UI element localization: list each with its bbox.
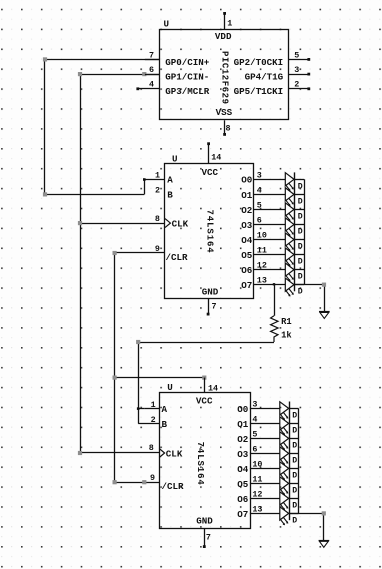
LED D14 <box>280 477 298 496</box>
wire cathode rung 1 column 2 <box>289 408 298 410</box>
svg-text:8: 8 <box>149 443 154 453</box>
wire cathode rung 7 column 2 <box>289 498 298 500</box>
wire cathode rung 2 column 1 <box>294 194 304 196</box>
svg-text:D: D <box>292 411 297 420</box>
svg-text:O4: O4 <box>237 464 249 475</box>
U1 pin 6 stub GP1 <box>145 74 160 76</box>
svg-text:D: D <box>292 471 297 480</box>
junction VCC U3 tap <box>113 376 117 380</box>
LED D15 <box>280 492 298 511</box>
wire U2 output O7 pin 13 <box>254 284 285 286</box>
LED D10 <box>280 417 298 436</box>
svg-text:VCC: VCC <box>196 395 213 406</box>
junction ground 2 corner <box>322 511 326 515</box>
node A/B tie U2 <box>143 178 146 181</box>
junction ground 1 corner <box>322 283 326 287</box>
svg-text:O2: O2 <box>241 205 252 216</box>
junction GP0 corner 1 <box>43 57 47 61</box>
wire GP1 net: PIC pin6 to CLK of U2 and U3 <box>80 74 165 453</box>
svg-text:1: 1 <box>227 19 232 29</box>
wire U3 output O6 pin 12 <box>250 498 280 500</box>
shift register U2 74LS164 body <box>165 164 254 299</box>
ground symbol 2 <box>319 541 330 548</box>
junction GP1 pin connect <box>142 72 146 76</box>
svg-text:7: 7 <box>206 533 211 543</box>
wire LED cathode bus column 1 <box>304 179 306 284</box>
junction GP0 corner 2 <box>43 192 47 196</box>
svg-text:D: D <box>292 441 297 450</box>
junction CLK U3 corner <box>78 451 82 455</box>
svg-text:O7: O7 <box>237 509 248 520</box>
svg-text:7: 7 <box>149 50 154 60</box>
U1 pin 2 stub GP5 <box>289 87 311 90</box>
svg-text:VDD: VDD <box>215 31 232 42</box>
junction CLR U3 corner <box>113 480 117 484</box>
svg-text:B: B <box>167 190 173 201</box>
svg-text:12: 12 <box>257 261 267 271</box>
wire U3 output O1 pin 4 <box>250 423 280 425</box>
wire cathode rung 4 column 1 <box>294 224 304 226</box>
wire cathode rung 4 column 2 <box>289 453 298 455</box>
svg-text:8: 8 <box>226 123 231 133</box>
svg-text:O1: O1 <box>241 190 253 201</box>
LED D7 <box>285 263 303 282</box>
svg-text:10: 10 <box>257 231 267 241</box>
junction VCC U3 pin connect <box>202 376 206 380</box>
svg-text:13: 13 <box>252 504 262 514</box>
svg-text:GP4/T1G: GP4/T1G <box>245 72 284 83</box>
svg-text:5: 5 <box>257 200 262 210</box>
wire R1 bottom to U3 pins A,B <box>138 342 274 424</box>
LED D2 <box>285 188 303 207</box>
svg-text:8: 8 <box>155 214 160 224</box>
U1 pin 1 VDD stub <box>223 12 226 30</box>
LED D16 <box>280 507 298 526</box>
wire cathode rung 8 column 2 <box>289 513 298 515</box>
svg-text:12: 12 <box>252 489 262 499</box>
LED D1 <box>285 173 303 192</box>
svg-text:11: 11 <box>252 474 262 484</box>
wire U3 output O3 pin 6 <box>250 453 280 455</box>
LED D13 <box>280 462 298 481</box>
svg-text:D: D <box>298 288 303 297</box>
wire cathode rung 7 column 1 <box>294 269 304 271</box>
svg-text:3: 3 <box>294 65 299 75</box>
svg-text:D: D <box>298 243 303 252</box>
svg-text:O4: O4 <box>241 235 253 246</box>
svg-text:O6: O6 <box>241 265 252 276</box>
wire U2 output O5 pin 11 <box>254 254 285 256</box>
svg-text:11: 11 <box>257 246 267 256</box>
svg-text:A: A <box>167 175 173 186</box>
wire U3 output O4 pin 10 <box>250 468 280 470</box>
svg-text:D: D <box>292 456 297 465</box>
svg-text:3: 3 <box>252 399 257 409</box>
wire cathode rung 8 column 1 <box>294 284 304 286</box>
wire cathode rung 1 column 1 <box>294 179 304 181</box>
svg-text:5: 5 <box>252 429 257 439</box>
wire GP0 net: PIC pin7 to 74LS164 U2 pins A,B <box>45 59 166 194</box>
LED D8 <box>285 278 303 297</box>
wire U3 output O7 pin 13 <box>250 513 280 515</box>
svg-text:D: D <box>292 501 297 510</box>
LED D12 <box>280 447 298 466</box>
wire U3 output O5 pin 11 <box>250 483 280 485</box>
svg-text:O5: O5 <box>237 479 249 490</box>
U1 pin 8 VSS stub <box>223 120 226 136</box>
svg-text:9: 9 <box>150 473 155 483</box>
svg-text:1: 1 <box>155 170 160 180</box>
junction GP1 corner <box>78 72 82 76</box>
svg-text:D: D <box>292 426 297 435</box>
svg-text:CLK: CLK <box>172 219 189 230</box>
svg-text:R1: R1 <box>281 317 292 327</box>
svg-text:14: 14 <box>208 383 218 393</box>
svg-text:U: U <box>172 153 178 164</box>
svg-text:2: 2 <box>294 80 299 90</box>
svg-text:2: 2 <box>155 185 160 195</box>
svg-text:74LS164: 74LS164 <box>195 442 205 486</box>
svg-text:1k: 1k <box>281 330 292 340</box>
junction CLR U3 pin connect <box>142 480 146 484</box>
U3 CLK wedge <box>159 449 164 458</box>
svg-text:D: D <box>298 197 303 206</box>
LED D4 <box>285 218 303 237</box>
svg-text:3: 3 <box>257 170 262 180</box>
wire CLR net: /CLR U2, VCC U3, /CLR U3 <box>115 253 205 483</box>
LED D9 <box>280 402 298 421</box>
svg-text:B: B <box>162 419 168 430</box>
svg-text:10: 10 <box>252 459 262 469</box>
wire LED cathode rail column 1 <box>294 172 296 291</box>
svg-text:2: 2 <box>151 415 156 425</box>
svg-text:4: 4 <box>257 185 262 195</box>
op-amp U1 PIC12F629 body <box>160 30 289 120</box>
svg-text:GP3/MCLR: GP3/MCLR <box>165 86 210 97</box>
svg-text:U: U <box>167 382 173 393</box>
svg-text:D: D <box>298 273 303 282</box>
svg-text:/CLR: /CLR <box>166 252 189 263</box>
wire cathode rung 6 column 1 <box>294 254 304 256</box>
svg-text:D: D <box>298 212 303 221</box>
wire cathode rung 2 column 2 <box>289 423 298 425</box>
svg-text:GND: GND <box>196 516 213 527</box>
svg-text:GP1/CIN-: GP1/CIN- <box>165 72 209 83</box>
wire U2 output O3 pin 6 <box>254 224 285 226</box>
svg-text:1: 1 <box>151 400 156 410</box>
svg-text:VSS: VSS <box>216 107 233 118</box>
wire U2 output O4 pin 10 <box>254 239 285 241</box>
resistor R1 1k <box>271 283 278 342</box>
wire cathode rung 3 column 1 <box>294 209 304 211</box>
svg-text:D: D <box>292 516 297 525</box>
svg-text:O5: O5 <box>241 250 253 261</box>
wire cathode rung 5 column 2 <box>289 468 298 470</box>
wire U3 output O0 pin 3 <box>250 408 280 410</box>
svg-text:D: D <box>298 182 303 191</box>
svg-text:6: 6 <box>252 444 257 454</box>
wire cathode rung 3 column 2 <box>289 438 298 440</box>
LED D3 <box>285 203 303 222</box>
svg-text:6: 6 <box>257 215 262 225</box>
wire U2 output O6 pin 12 <box>254 269 285 271</box>
svg-text:VCC: VCC <box>202 167 219 178</box>
ground symbol 1 <box>319 312 330 319</box>
U1 pin 3 stub GP4 <box>289 73 311 76</box>
svg-text:O1: O1 <box>237 419 249 430</box>
U3 pin 14 VCC stub <box>204 378 206 393</box>
U2 pin 7 GND stub <box>207 299 210 316</box>
shift register U3 74LS164 body <box>160 393 251 529</box>
svg-text:4: 4 <box>149 80 154 90</box>
wire cathode rung 5 column 1 <box>294 239 304 241</box>
svg-text:7: 7 <box>212 301 217 311</box>
wire LED cathode bus column 2 <box>298 408 300 513</box>
svg-text:D: D <box>298 227 303 236</box>
LED D11 <box>280 432 298 451</box>
wire LED cathode rail column 2 <box>289 402 291 521</box>
junction CLR U2 corner <box>113 251 117 255</box>
svg-text:GP5/T1CKI: GP5/T1CKI <box>234 86 284 97</box>
wire column 2 to ground <box>289 513 324 540</box>
U2 pin 14 VCC stub <box>207 142 210 164</box>
svg-text:D: D <box>298 258 303 267</box>
LED D5 <box>285 233 303 252</box>
svg-text:O7: O7 <box>241 280 252 291</box>
U3 pin 7 GND stub <box>203 528 206 548</box>
svg-text:O0: O0 <box>237 404 248 415</box>
node A/B tie U3 <box>137 407 140 410</box>
U2 CLK wedge <box>165 219 170 228</box>
svg-text:6: 6 <box>149 65 154 75</box>
svg-text:PIC12F629: PIC12F629 <box>220 51 230 105</box>
svg-text:/CLR: /CLR <box>162 481 185 492</box>
svg-text:O3: O3 <box>237 449 249 460</box>
LED D6 <box>285 248 303 267</box>
svg-text:GND: GND <box>202 286 219 297</box>
wire U3 output O2 pin 5 <box>250 438 280 440</box>
svg-text:14: 14 <box>211 152 221 162</box>
svg-text:GP0/CIN+: GP0/CIN+ <box>165 57 210 68</box>
svg-text:4: 4 <box>252 414 257 424</box>
svg-text:CLK: CLK <box>166 448 183 459</box>
junction R1 wire corner <box>136 340 140 344</box>
svg-text:5: 5 <box>294 50 299 60</box>
U1 pin 7 stub GP0 <box>145 59 160 61</box>
svg-text:U: U <box>164 19 170 30</box>
svg-text:13: 13 <box>257 276 267 286</box>
svg-text:O0: O0 <box>241 175 252 186</box>
wire U2 output O0 pin 3 <box>254 179 285 181</box>
junction CLK U2 tap <box>78 221 82 225</box>
svg-text:74LS164: 74LS164 <box>204 210 214 254</box>
svg-text:GP2/T0CKI: GP2/T0CKI <box>234 57 284 68</box>
wire column 1 to ground <box>294 285 324 312</box>
svg-text:D: D <box>292 486 297 495</box>
svg-text:O3: O3 <box>241 220 253 231</box>
wire cathode rung 6 column 2 <box>289 483 298 485</box>
svg-text:A: A <box>162 404 168 415</box>
svg-text:O2: O2 <box>237 434 248 445</box>
wire U2 output O2 pin 5 <box>254 209 285 211</box>
svg-text:O6: O6 <box>237 494 248 505</box>
U1 pin 5 stub GP2 <box>289 58 311 61</box>
svg-text:9: 9 <box>155 244 160 254</box>
wire U2 output O1 pin 4 <box>254 194 285 196</box>
U1 pin 4 stub GP3 <box>136 87 159 90</box>
